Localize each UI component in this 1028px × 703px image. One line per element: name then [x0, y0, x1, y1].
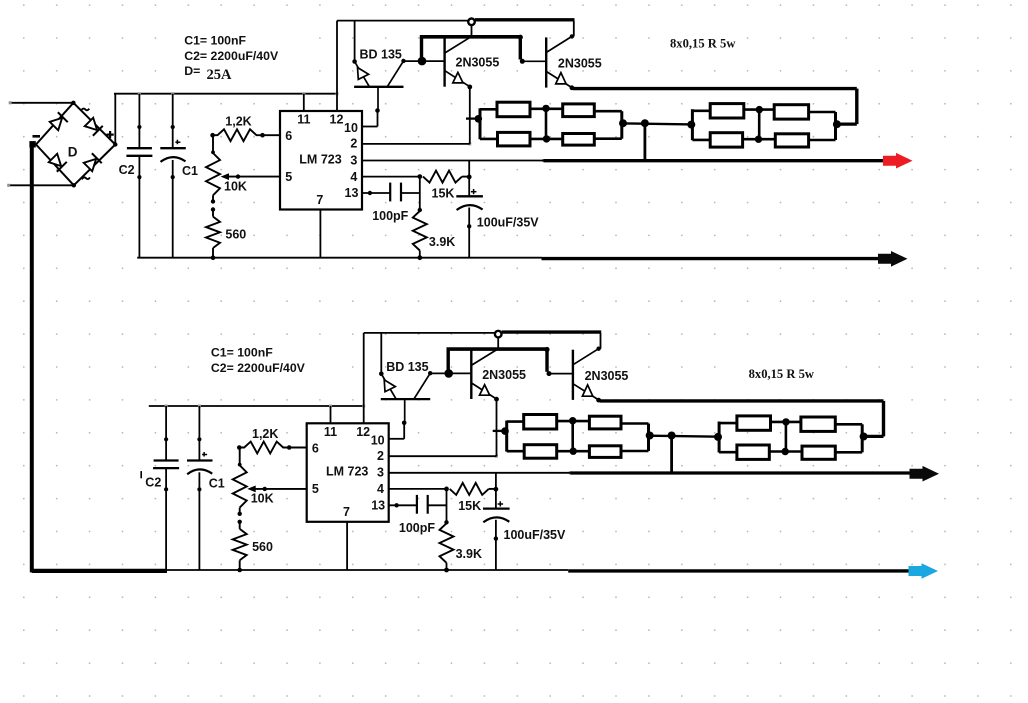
- svg-text:4: 4: [377, 482, 384, 496]
- svg-text:C2= 2200uF/40V: C2= 2200uF/40V: [184, 49, 279, 63]
- wire bank link c1: [623, 123, 692, 124]
- plus label: [107, 131, 114, 138]
- potentiometer 10K c2: [239, 448, 241, 466]
- transistor BD 135 c1: [354, 21, 356, 62]
- transistor 2N3055 Q2b: [600, 333, 602, 349]
- resistor 560 c1: [212, 210, 214, 217]
- node collector circle c2: [495, 331, 502, 338]
- wire tap down to output c2: [670, 436, 673, 472]
- thick wire ground out c2: [568, 569, 911, 572]
- svg-text:13: 13: [345, 186, 359, 200]
- svg-text:4: 4: [350, 170, 357, 184]
- svg-text:10: 10: [371, 433, 385, 447]
- wire bank link c2: [650, 436, 719, 437]
- thick wire base link c1: [420, 37, 423, 61]
- annotation text c2: [205, 340, 330, 378]
- wire ground rail c2: [167, 569, 569, 571]
- node bank1 input c2: [501, 427, 509, 435]
- svg-text:15K: 15K: [458, 499, 481, 513]
- wire pin 11 c2: [330, 406, 332, 423]
- svg-text:2N3055: 2N3055: [456, 56, 500, 70]
- svg-text:13: 13: [371, 498, 385, 512]
- svg-text:C1: C1: [209, 477, 225, 491]
- svg-text:11: 11: [324, 425, 337, 439]
- svg-text:C1= 100nF: C1= 100nF: [184, 33, 246, 47]
- node base junction c1: [418, 57, 427, 66]
- svg-text:5: 5: [285, 170, 292, 184]
- thick wire Q2b emitter to bank: [600, 399, 884, 402]
- capacitor 100pF c2: [389, 504, 417, 506]
- svg-text:15K: 15K: [432, 187, 455, 201]
- svg-text:1,2K: 1,2K: [252, 427, 278, 441]
- wire BD135 collector to Q base c1: [404, 60, 445, 62]
- svg-text:560: 560: [252, 540, 273, 554]
- svg-text:100uF/35V: 100uF/35V: [477, 216, 540, 230]
- minus label: [33, 135, 41, 138]
- transistor 2N3055 Q1b: [573, 21, 575, 37]
- svg-text:10: 10: [344, 121, 358, 135]
- wire tap down to output c1: [644, 123, 647, 159]
- svg-text:8x0,15 R 5w: 8x0,15 R 5w: [749, 367, 815, 381]
- node base junction c2: [444, 369, 453, 378]
- svg-text:3.9K: 3.9K: [429, 235, 455, 249]
- svg-text:C2: C2: [119, 163, 135, 177]
- svg-text:LM 723: LM 723: [299, 152, 341, 166]
- op-amp regulator U2 LM 723: [307, 423, 389, 522]
- wire Q1a emitter down c1: [469, 87, 471, 144]
- svg-text:2: 2: [377, 449, 384, 463]
- svg-text:560: 560: [225, 228, 246, 242]
- thick wire Q1b emitter to bank: [573, 87, 857, 90]
- thick wire output c1: [544, 159, 885, 162]
- svg-text:11: 11: [297, 113, 310, 127]
- thick wire ground out c1: [542, 257, 885, 260]
- wire pin 2 c2: [389, 455, 497, 457]
- resistor 3.9K c1: [419, 177, 421, 211]
- transistor 2N3055 Q2a: [470, 350, 472, 399]
- svg-text:2N3055: 2N3055: [482, 368, 526, 382]
- resistor 3.9K c2: [446, 489, 448, 523]
- wire pin 12 c1: [336, 21, 338, 111]
- wire pin 10 c2: [389, 438, 405, 440]
- arrow output - black: [878, 251, 908, 267]
- diode bridge lower-right: [84, 159, 96, 171]
- svg-text:C2= 2200uF/40V: C2= 2200uF/40V: [211, 361, 306, 375]
- svg-text:10K: 10K: [224, 179, 247, 193]
- node output tap c2: [668, 432, 676, 440]
- svg-text:8x0,15 R 5w: 8x0,15 R 5w: [670, 37, 736, 51]
- thick wire bridge minus to bottom ground: [32, 144, 36, 146]
- svg-text:2N3055: 2N3055: [585, 369, 629, 383]
- svg-text:10K: 10K: [251, 492, 274, 506]
- wire pin 7 c2: [346, 522, 348, 570]
- svg-text:12: 12: [356, 425, 370, 439]
- wire BD135 collector to Q base c2: [430, 372, 471, 374]
- wire pin 3 c1: [362, 160, 544, 162]
- wire pin 10 c1: [362, 126, 378, 128]
- svg-text:3: 3: [350, 153, 357, 167]
- resistor 15K c1: [362, 176, 420, 178]
- svg-text:BD 135: BD 135: [360, 48, 402, 62]
- bridge rectifier D: [73, 103, 115, 145]
- svg-text:3.9K: 3.9K: [456, 547, 482, 561]
- capacitor 100uF/35V c2: [495, 473, 497, 509]
- diode bridge lower-left: [49, 154, 61, 166]
- wire AC input top: [10, 102, 73, 104]
- resistor 1,2K c2: [239, 442, 306, 454]
- resistor 560 c2: [239, 522, 241, 529]
- arrow output - blue c2: [909, 563, 939, 579]
- transistor BD 135 c2: [380, 333, 382, 374]
- thick wire base link c2: [447, 349, 450, 373]
- svg-text:7: 7: [343, 505, 350, 519]
- wire bridge + up to rail: [114, 94, 116, 145]
- thick wire top rail c1: [475, 18, 575, 21]
- thick wire top rail c2: [502, 330, 602, 333]
- svg-text:2N3055: 2N3055: [558, 57, 602, 71]
- wire pin 7 c1: [319, 210, 321, 258]
- wiper arrow pin 5 c2: [251, 488, 307, 490]
- tilde bottom: [82, 177, 90, 179]
- svg-text:6: 6: [312, 441, 319, 455]
- capacitor 100uF/35V c1: [468, 161, 470, 197]
- wiper arrow pin 5 c1: [224, 176, 280, 178]
- svg-text:5: 5: [312, 482, 319, 496]
- diode bridge upper-left: [50, 118, 62, 130]
- node output tap c1: [641, 119, 649, 127]
- capacitor C1 c1: [172, 94, 174, 149]
- svg-text:25A: 25A: [207, 67, 233, 83]
- arrow output + red: [883, 153, 913, 169]
- svg-text:6: 6: [285, 129, 292, 143]
- node bank1 input c1: [475, 115, 483, 123]
- svg-text:2: 2: [350, 137, 357, 151]
- svg-text:100pF: 100pF: [372, 209, 408, 223]
- tilde top: [81, 109, 89, 111]
- tick mark before C2 label c2: [140, 471, 142, 478]
- wire pin 2 c1: [362, 143, 470, 145]
- resistor bank 8x0,15R group2 c2: [718, 422, 721, 453]
- resistor 15K c2: [389, 488, 447, 490]
- wire +V rail c1: [114, 93, 337, 95]
- wire Q2a emitter down c2: [496, 399, 498, 456]
- svg-text:7: 7: [316, 193, 323, 207]
- diode bridge upper-right: [85, 118, 97, 130]
- capacitor 100pF c1: [362, 192, 390, 194]
- resistor bank 8x0,15R group1 c2: [505, 421, 508, 452]
- node bank2 input c2: [714, 433, 722, 441]
- resistor bank 8x0,15R group1 c1: [479, 108, 482, 139]
- potentiometer 10K c1: [212, 135, 214, 153]
- resistor bank 8x0,15R group2 c1: [691, 109, 694, 140]
- arrow output + black c2: [910, 466, 940, 482]
- wire pin 11 c1: [303, 94, 305, 111]
- node collector circle c1: [468, 19, 475, 26]
- capacitor C2 c1: [138, 94, 140, 149]
- wire +V rail c2: [149, 405, 364, 407]
- capacitor C2 c2: [165, 406, 167, 461]
- capacitor C1 c2: [198, 406, 200, 461]
- thick wire output c2: [570, 471, 911, 474]
- annotation text c1: [178, 28, 303, 84]
- wire AC input bottom: [9, 184, 74, 186]
- wire top rail to collector node c2: [364, 332, 495, 334]
- svg-text:1,2K: 1,2K: [225, 115, 251, 129]
- wire pin 3 c2: [389, 472, 571, 474]
- svg-text:LM 723: LM 723: [326, 465, 368, 479]
- svg-text:C1: C1: [182, 164, 198, 178]
- svg-text:C1= 100nF: C1= 100nF: [211, 346, 273, 360]
- svg-text:100pF: 100pF: [399, 521, 435, 535]
- svg-text:D=: D=: [184, 64, 200, 78]
- wire ground rail c1: [137, 257, 541, 259]
- svg-text:D: D: [68, 145, 78, 160]
- wire top rail to collector node c1: [337, 20, 468, 22]
- svg-text:12: 12: [330, 113, 344, 127]
- wire pin 12 c2: [363, 333, 365, 423]
- transistor 2N3055 Q1a: [443, 38, 445, 87]
- op-amp regulator U1 LM 723: [280, 111, 362, 210]
- node bank2 input c1: [687, 121, 695, 129]
- svg-text:C2: C2: [145, 476, 161, 490]
- svg-text:3: 3: [377, 466, 384, 480]
- svg-text:100uF/35V: 100uF/35V: [504, 528, 567, 542]
- resistor 1,2K c1: [213, 129, 280, 141]
- svg-text:BD 135: BD 135: [386, 360, 428, 374]
